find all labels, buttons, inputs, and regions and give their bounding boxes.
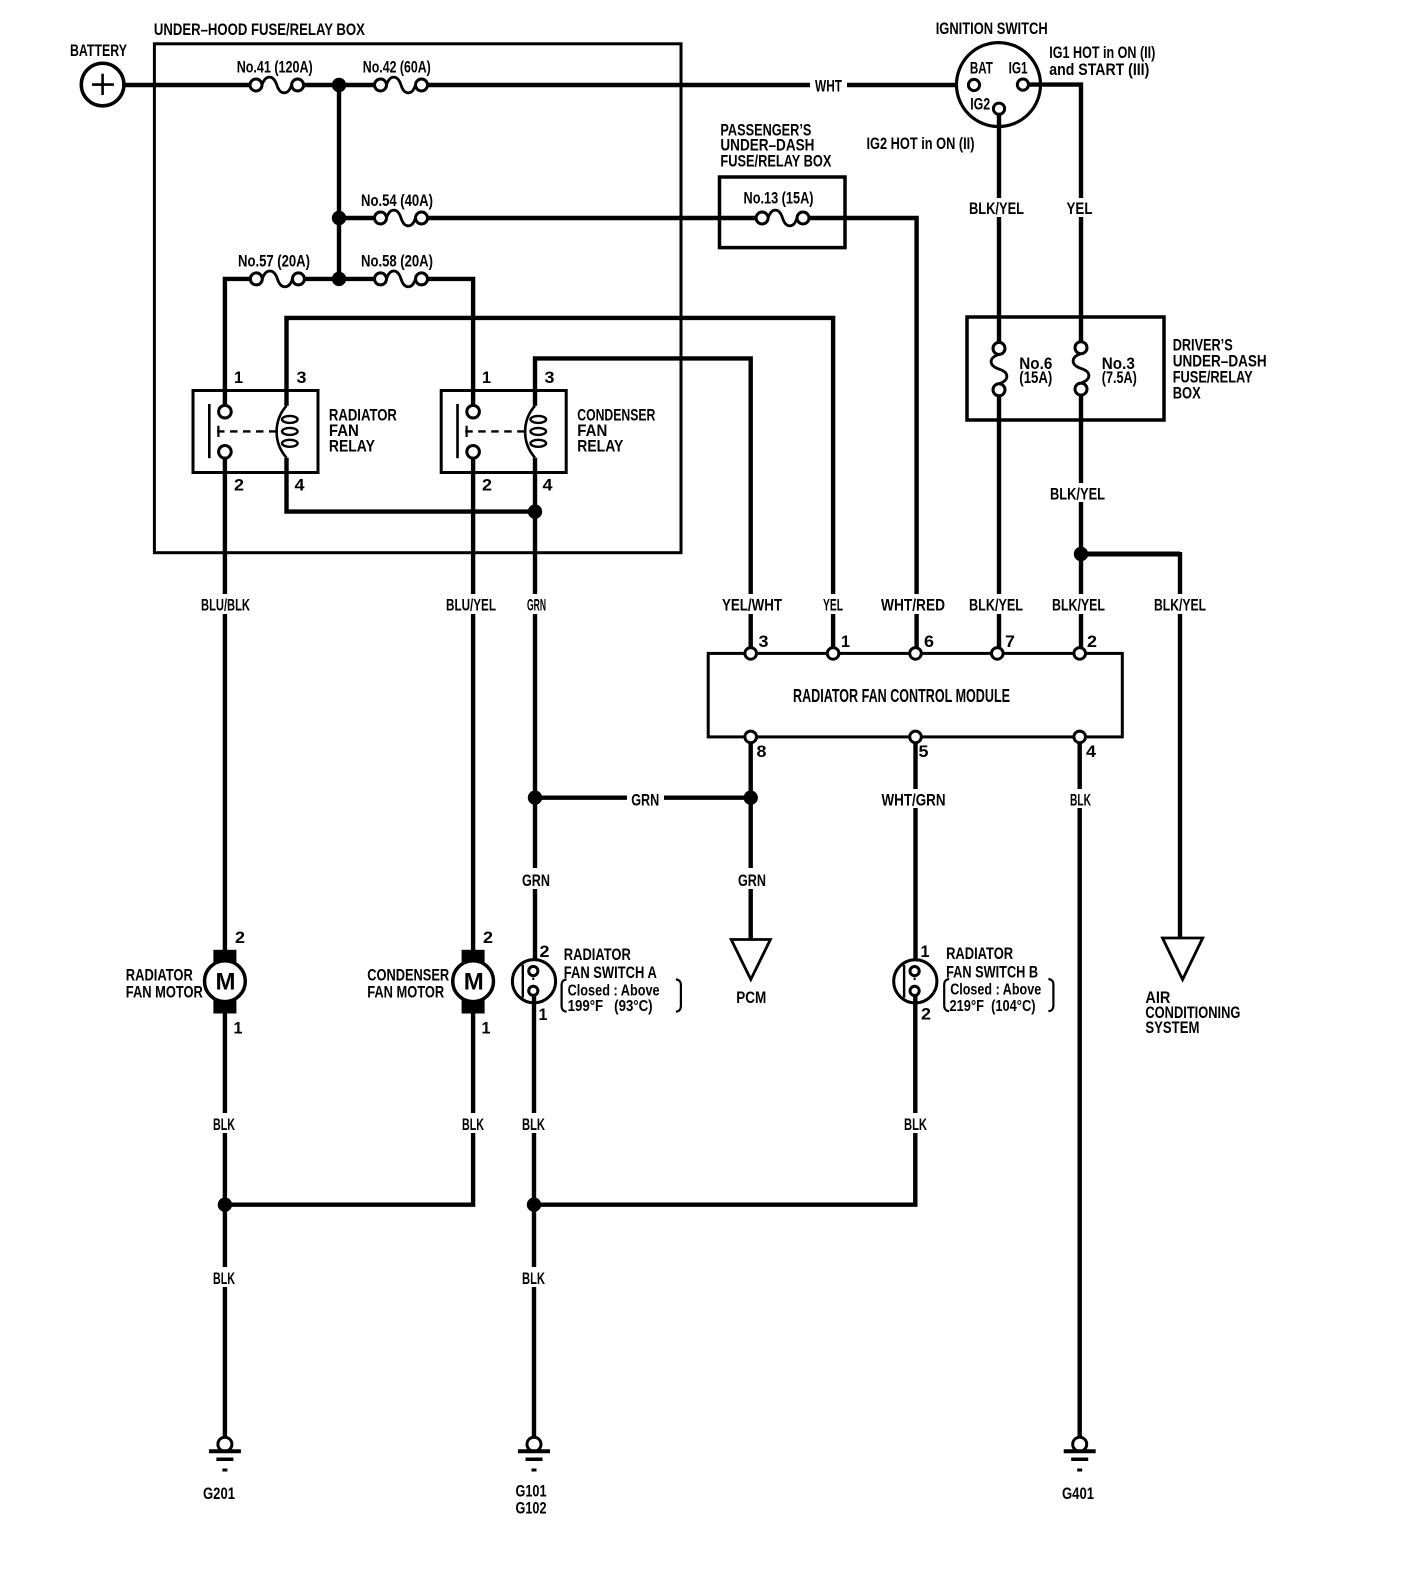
module pin 4 (1074, 731, 1086, 743)
svg-text:G401: G401 (1062, 1484, 1094, 1503)
svg-text:FAN SWITCH A: FAN SWITCH A (564, 963, 657, 982)
wire ignition IG1 to driver's box No.3 (YEL) (1029, 85, 1082, 343)
svg-text:UNDER–HOOD FUSE/RELAY BOX: UNDER–HOOD FUSE/RELAY BOX (154, 20, 366, 39)
condenser fan motor (453, 950, 494, 1014)
wire branch to air conditioning system (BLK/YEL) (1081, 552, 1180, 557)
wire module pin 8 to PCM (GRN) (749, 743, 753, 942)
svg-text:M: M (216, 969, 236, 996)
wire No.54 row to passenger box and module pin 6 (WHT/RED) (339, 218, 917, 648)
svg-text:FAN MOTOR: FAN MOTOR (367, 983, 444, 1002)
svg-text:BAT: BAT (970, 59, 993, 78)
svg-text:(15A): (15A) (1019, 368, 1052, 387)
passenger's under-dash fuse/relay box (720, 177, 846, 248)
svg-text:GRN: GRN (631, 791, 659, 810)
svg-text:BLK: BLK (904, 1115, 927, 1134)
label BLK/YEL pin 7 (965, 594, 1027, 614)
label BLK radiator motor (209, 1113, 240, 1133)
svg-text:199°F (93°C): 199°F (93°C) (568, 998, 653, 1015)
label BLK to G201 (209, 1267, 240, 1287)
svg-text:GRN: GRN (527, 596, 546, 615)
svg-text:YEL: YEL (1067, 199, 1093, 218)
svg-text:BLK/YEL: BLK/YEL (1052, 596, 1105, 615)
svg-text:WHT/GRN: WHT/GRN (882, 791, 946, 810)
svg-text:RADIATOR: RADIATOR (564, 945, 631, 964)
ground G101/G102 (518, 1437, 550, 1470)
svg-text:RADIATOR: RADIATOR (946, 944, 1013, 963)
junction relay pins 4 (528, 504, 542, 518)
radiator fan switch A (512, 960, 555, 1003)
svg-text:YEL/WHT: YEL/WHT (722, 596, 782, 615)
ground G401 (1064, 1437, 1096, 1470)
wire condenser relay pin 3 to module pin 3 (YEL/WHT) (535, 358, 751, 648)
label WHT/GRN (877, 789, 950, 808)
radiator fan switch B (894, 960, 937, 1003)
svg-text:1: 1 (921, 942, 930, 961)
fuse No.6 (15A) vertical (996, 349, 1003, 388)
svg-text:No.58 (20A): No.58 (20A) (361, 252, 433, 271)
fuse No.42 (60A) (381, 82, 421, 89)
wire switch A to ground (BLK) (532, 995, 536, 1437)
wire No.6 output to module pin 7 (BLK/YEL) (997, 396, 1001, 648)
svg-text:1: 1 (234, 1019, 243, 1038)
svg-text:4: 4 (295, 476, 306, 495)
wire condenser relay pin 4 down (GRN) (533, 458, 537, 967)
wire radiator relay pin 2 to radiator fan motor (BLU/BLK) (223, 458, 227, 950)
svg-text:BLU/BLK: BLU/BLK (201, 596, 250, 615)
label GRN (523, 594, 551, 614)
svg-text:2: 2 (235, 928, 245, 947)
air conditioning arrow (1163, 938, 1203, 980)
wire radiator relay pin 4 to condenser pin 4 junction (287, 458, 536, 512)
svg-text:3: 3 (759, 632, 769, 651)
module pin 5 (910, 731, 922, 743)
svg-text:(7.5A): (7.5A) (1102, 368, 1137, 387)
svg-text:No.42 (60A): No.42 (60A) (363, 58, 431, 77)
condenser fan relay (441, 391, 566, 473)
svg-text:WHT/RED: WHT/RED (881, 596, 945, 615)
wire No.57 to radiator fan relay pin 1 (225, 279, 339, 406)
label BLK switch B (900, 1113, 931, 1133)
svg-text:2: 2 (921, 1005, 931, 1024)
svg-text:2: 2 (1087, 632, 1097, 651)
svg-text:BLK/YEL: BLK/YEL (969, 596, 1023, 615)
label BLK condenser motor (458, 1113, 489, 1133)
PCM arrow (731, 940, 770, 980)
ground G201 (209, 1437, 241, 1470)
svg-text:1: 1 (482, 1019, 491, 1038)
junction GRN left (528, 791, 542, 805)
module pin 1 (827, 648, 839, 660)
junction ground bus right (527, 1198, 541, 1212)
svg-text:SYSTEM: SYSTEM (1145, 1018, 1199, 1037)
svg-text:No.54 (40A): No.54 (40A) (361, 191, 433, 210)
svg-text:4: 4 (543, 476, 554, 495)
label WHT (810, 76, 847, 94)
junction No.57/No.58 (332, 272, 346, 286)
fuse No.58 (20A) (381, 276, 421, 283)
fuse No.41 (120A) (257, 82, 297, 89)
svg-text:BOX: BOX (1173, 384, 1201, 403)
label BLK to G101 (518, 1267, 549, 1287)
svg-text:and START (III): and START (III) (1049, 60, 1149, 79)
driver's under-dash fuse/relay box (967, 317, 1164, 420)
svg-text:BLU/YEL: BLU/YEL (446, 596, 496, 615)
svg-text:2: 2 (482, 476, 492, 495)
svg-text:Closed : Above: Closed : Above (568, 983, 660, 1000)
svg-text:219°F (104°C): 219°F (104°C) (950, 998, 1036, 1015)
junction ground bus left (218, 1198, 232, 1212)
label WHT/RED (877, 594, 949, 614)
label BLU/YEL (442, 594, 500, 614)
svg-text:1: 1 (482, 368, 491, 387)
wire module pin 5 to switch B (WHT/GRN) (913, 743, 917, 967)
label GRN left vertical (518, 868, 555, 889)
svg-text:4: 4 (1086, 742, 1097, 761)
wire condenser relay pin 2 to condenser fan motor (BLU/YEL) (471, 458, 475, 950)
svg-text:RELAY: RELAY (329, 437, 376, 456)
svg-text:IGNITION SWITCH: IGNITION SWITCH (936, 19, 1048, 38)
svg-text:GRN: GRN (522, 871, 550, 890)
wire No.58 to condenser fan relay pin 1 (339, 279, 473, 406)
label BLK switch A (518, 1113, 549, 1133)
fuse No.57 (20A) (257, 276, 297, 283)
radiator fan motor (205, 950, 246, 1014)
label YEL (819, 594, 847, 614)
svg-text:G201: G201 (203, 1484, 235, 1503)
fuse No.54 (40A) (381, 215, 421, 222)
label YEL above driver's box (1062, 198, 1098, 217)
svg-text:IG1: IG1 (1009, 59, 1028, 78)
battery (81, 63, 124, 106)
svg-text:BLK/YEL: BLK/YEL (1154, 596, 1206, 615)
svg-text:1: 1 (539, 1005, 548, 1024)
svg-text:GRN: GRN (738, 871, 766, 890)
svg-text:BATTERY: BATTERY (70, 41, 127, 60)
svg-text:PCM: PCM (736, 988, 766, 1007)
ignition terminal IG2 (993, 103, 1004, 114)
svg-text:8: 8 (757, 742, 767, 761)
label BLK pin 4 (1066, 789, 1096, 808)
svg-text:BLK/YEL: BLK/YEL (969, 199, 1024, 218)
svg-text:BLK: BLK (462, 1115, 484, 1134)
module pin 3 (745, 648, 757, 660)
svg-text:1: 1 (841, 632, 850, 651)
svg-text:FAN SWITCH B: FAN SWITCH B (946, 963, 1038, 982)
svg-text:FUSE/RELAY BOX: FUSE/RELAY BOX (720, 152, 831, 171)
svg-text:FAN MOTOR: FAN MOTOR (126, 983, 203, 1002)
svg-text:No.13 (15A): No.13 (15A) (744, 189, 814, 208)
label BLK/YEL air conditioning (1150, 594, 1210, 614)
label BLK/YEL pin 2 (1048, 594, 1109, 614)
svg-text:IG2: IG2 (970, 95, 990, 114)
label BLK/YEL above driver's box (966, 198, 1028, 217)
label BLU/BLK (197, 594, 255, 614)
junction No.41/No.42 (332, 78, 346, 92)
wire GRN crossover (535, 796, 751, 800)
wire switch B to ground bus (BLK) (534, 996, 915, 1205)
svg-text:2: 2 (540, 942, 550, 961)
radiator fan relay (193, 391, 318, 473)
svg-text:BLK: BLK (213, 1269, 235, 1288)
svg-text:3: 3 (297, 368, 307, 387)
svg-text:5: 5 (919, 742, 929, 761)
wire radiator relay pin 3 to module pin 1 (YEL) (287, 318, 834, 648)
junction No.54 (332, 211, 346, 225)
svg-text:BLK: BLK (213, 1115, 235, 1134)
svg-text:No.57 (20A): No.57 (20A) (238, 252, 310, 271)
svg-text:RELAY: RELAY (577, 437, 624, 456)
svg-text:2: 2 (234, 476, 244, 495)
module pin 8 (745, 731, 757, 743)
module pin 2 (1074, 648, 1086, 660)
svg-text:YEL: YEL (823, 596, 843, 615)
svg-text:6: 6 (924, 632, 934, 651)
svg-text:BLK/YEL: BLK/YEL (1050, 485, 1105, 504)
wire ignition IG2 to driver's box No.6 (BLK/YEL) (997, 114, 1001, 342)
svg-text:BLK: BLK (1070, 791, 1091, 810)
svg-text:WHT: WHT (815, 77, 842, 96)
label GRN right vertical (734, 868, 771, 889)
svg-text:BLK: BLK (522, 1115, 545, 1134)
wire battery to ignition BAT (WHT) (124, 83, 969, 87)
svg-text:3: 3 (545, 368, 555, 387)
ignition switch (957, 43, 1041, 127)
radiator fan control module (708, 653, 1122, 737)
junction BLK/YEL branch (1074, 547, 1088, 561)
ignition terminal IG1 (1017, 79, 1028, 90)
svg-text:No.41 (120A): No.41 (120A) (237, 58, 313, 77)
junction GRN right (744, 791, 758, 805)
wire No.3 output to module pin 2 (BLK/YEL) (1079, 395, 1083, 648)
label BLK/YEL on No.3 output (1047, 483, 1109, 502)
label GRN crossover (627, 789, 664, 808)
svg-text:G102: G102 (516, 1499, 547, 1518)
module pin 7 (992, 648, 1004, 660)
svg-text:1: 1 (234, 368, 243, 387)
svg-text:Closed : Above: Closed : Above (950, 982, 1041, 999)
ignition terminal BAT (968, 79, 979, 90)
fuse No.13 (15A) (763, 215, 802, 222)
under-hood fuse/relay box (154, 44, 681, 553)
fuse No.3 (7.5A) vertical (1078, 349, 1085, 388)
wire main vertical feed from No.41/42 junction (337, 85, 341, 279)
label YEL/WHT (718, 594, 786, 614)
wire radiator fan motor to ground bus (BLK) (223, 1013, 227, 1438)
module pin 6 (910, 648, 922, 660)
svg-text:IG2 HOT in ON (II): IG2 HOT in ON (II) (867, 134, 975, 153)
svg-text:7: 7 (1005, 632, 1015, 651)
svg-text:RADIATOR FAN CONTROL MODULE: RADIATOR FAN CONTROL MODULE (793, 686, 1010, 706)
svg-text:BLK: BLK (522, 1269, 545, 1288)
wire module pin 4 to ground G401 (BLK) (1077, 743, 1081, 1438)
svg-text:2: 2 (483, 928, 493, 947)
svg-text:M: M (464, 969, 484, 996)
wire condenser fan motor to ground bus (BLK) (225, 1013, 473, 1205)
